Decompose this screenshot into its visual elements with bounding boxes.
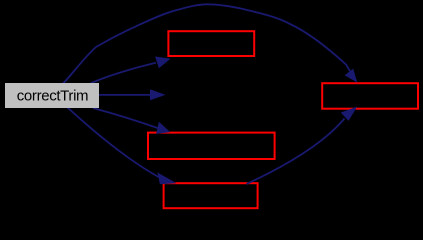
arrowhead into rightbox bottom: [341, 107, 358, 121]
node correctTrim (current, grey): [5, 83, 99, 108]
edge correctTrim to rightbox (big top arc): [63, 4, 350, 83]
edge correctTrim to topbox: [91, 63, 157, 84]
edge correctTrim to box3: [93, 108, 158, 128]
node rightbox (red): [322, 83, 418, 109]
arrowhead into box3 top: [156, 122, 170, 134]
edge correctTrim horizontal: [99, 94, 150, 96]
arrowhead at topbox lower-left: [155, 57, 171, 69]
node topbox (red): [168, 31, 254, 56]
edge correctTrim to box4: [68, 108, 160, 178]
node box3 (red): [148, 133, 275, 159]
node box4 (red): [164, 183, 258, 208]
arrowhead into box4 top: [157, 172, 176, 184]
svg-text:correctTrim: correctTrim: [17, 87, 88, 104]
arrowhead big arc into rightbox top: [345, 69, 358, 83]
edge box4 to rightbox: [247, 119, 345, 185]
arrowhead horizontal: [150, 89, 166, 100]
